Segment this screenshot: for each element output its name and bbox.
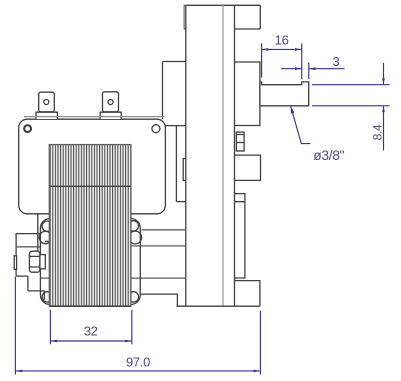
gearbox bottom edge [177,305,260,307]
bobbin side bump right [129,231,142,244]
dim 16 arrowheads [262,48,302,51]
dim 8.4 line top [383,63,385,85]
dim 8.4 extension bottom [312,105,390,107]
mounting plate top edge [186,4,260,6]
terminal T1 hole [44,100,49,105]
motor mounting strap upper [163,62,186,120]
thrust hex nut [29,251,40,272]
bobbin tick [45,240,49,242]
svg-text:ø3/8": ø3/8" [313,148,344,163]
mounting plate left edge [185,5,187,306]
terminal T2 flare [100,112,121,119]
dim 8.4 arrow down [382,78,385,85]
top-right tab block [235,5,261,29]
bearing nut on gearbox face [236,132,244,151]
connector low line [176,201,185,203]
nut bushing [40,255,45,269]
dim 8.4 arrow up [382,106,385,113]
dim 16 line [262,48,302,50]
mid-left tab [183,159,186,181]
dim 3 line left [281,68,302,70]
bottom step [140,294,178,306]
through line B [16,245,186,248]
dim 3 arrow right [309,67,316,70]
coil bobbin [40,219,140,305]
dim 97 extension left [14,277,16,375]
dim 97 line [15,370,260,372]
through line A [142,229,186,231]
lamination stack [49,145,131,307]
connector vertical [175,126,177,202]
dim 3 extension [308,63,310,80]
motor end bell [19,119,166,214]
bobbin corner circle BR [128,292,138,302]
left tab [14,256,16,269]
dim 97 extension right [259,311,261,375]
shaft boss [235,62,260,126]
dim 8.4 line bottom [383,106,385,151]
dim 97 arrowheads [15,370,260,373]
dim 3 arrow left [295,67,302,70]
dim 32 extension left [49,310,51,344]
bobbin side bump left [39,231,51,243]
bobbin corner circle BL [42,292,52,302]
through line C [40,277,185,279]
dim 8.4 extension top [312,84,390,86]
svg-text:97.0: 97.0 [126,355,150,370]
screw hole left [24,125,31,132]
terminal T1 flare [36,112,57,119]
narrow vertical rib [235,194,245,278]
bracket lip line [24,116,165,118]
output shaft [260,82,309,106]
bobbin corner circle TR [128,221,138,231]
svg-text:3: 3 [333,54,340,69]
dim 3 line right [309,68,345,70]
bottom-right block [235,281,260,307]
hidden line vertical (plate inner) [222,5,224,306]
leader line for shaft diameter [291,106,311,144]
dim 32 arrowheads [50,340,131,343]
dim 16 extension right [301,43,303,79]
leader arrowhead [291,106,295,114]
terminal T1 body [39,92,55,112]
terminal T2 hole [108,100,113,105]
bobbin corner circle TL [42,221,52,231]
svg-text:16: 16 [275,32,289,47]
dim 32 line [50,340,131,342]
dim 32 extension right [131,310,133,344]
connector top line [165,125,185,127]
left block [16,214,44,300]
screw hole right [152,125,160,133]
gearbox front face vertical [234,5,236,306]
terminal T2 body [103,92,119,112]
top-left tab [184,5,186,29]
mid-right block [235,155,261,180]
svg-text:8.4: 8.4 [371,124,385,140]
dim 16 extension left [261,43,263,77]
svg-text:32: 32 [84,323,98,338]
